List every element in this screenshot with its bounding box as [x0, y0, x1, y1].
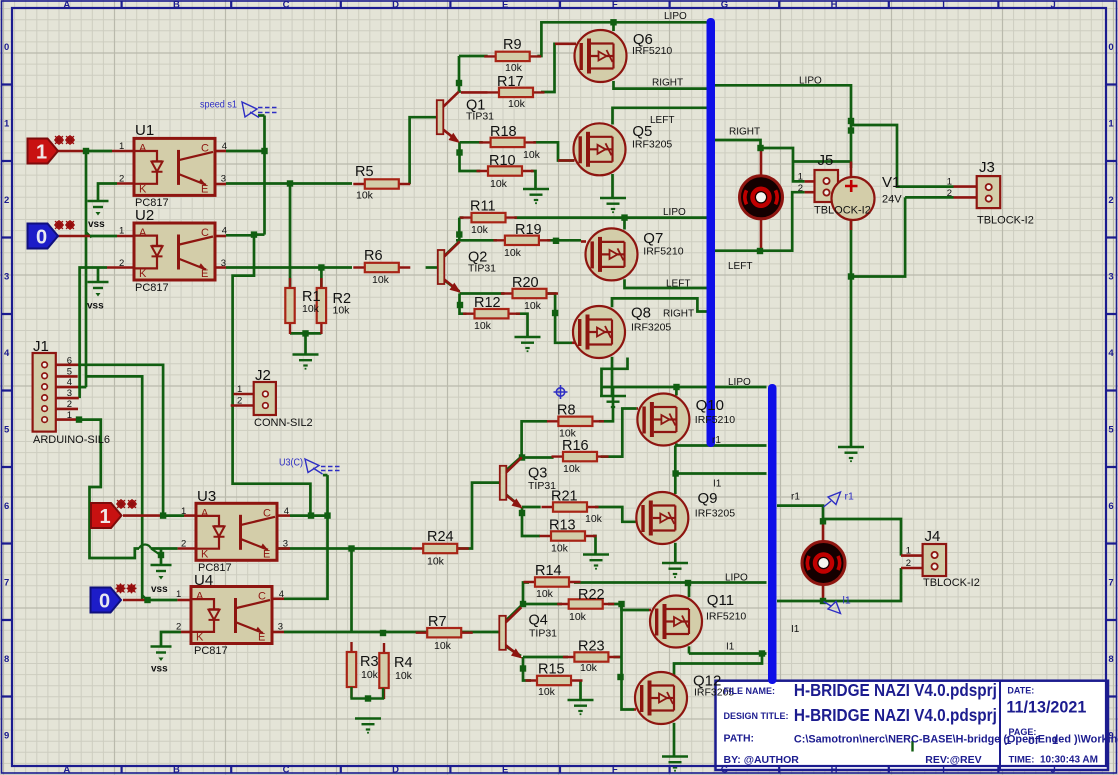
svg-text:3: 3	[4, 271, 9, 282]
svg-text:LIPO: LIPO	[664, 11, 687, 22]
svg-text:TBLOCK-I2: TBLOCK-I2	[977, 215, 1034, 227]
svg-text:2: 2	[176, 622, 181, 633]
svg-text:BY: @AUTHOR: BY: @AUTHOR	[724, 754, 800, 766]
svg-text:0: 0	[36, 227, 47, 249]
svg-text:10k: 10k	[524, 300, 542, 312]
svg-text:A: A	[201, 507, 209, 519]
svg-text:4: 4	[67, 377, 72, 388]
svg-text:E: E	[263, 548, 270, 560]
svg-text:1: 1	[36, 142, 47, 164]
svg-text:6: 6	[67, 355, 72, 366]
svg-text:r1: r1	[712, 435, 721, 446]
svg-text:H: H	[831, 765, 838, 775]
svg-text:1: 1	[947, 177, 952, 188]
svg-text:2: 2	[1108, 195, 1113, 206]
svg-text:Q10: Q10	[696, 397, 724, 414]
svg-text:LIPO: LIPO	[728, 377, 751, 388]
svg-text:PC817: PC817	[135, 282, 169, 294]
svg-text:10k: 10k	[474, 320, 492, 332]
svg-text:2: 2	[237, 396, 242, 407]
svg-text:I: I	[942, 0, 945, 11]
svg-text:24V: 24V	[882, 194, 902, 206]
svg-text:J2: J2	[255, 367, 271, 384]
svg-text:r1: r1	[845, 491, 854, 503]
svg-text:PATH:: PATH:	[724, 733, 755, 745]
svg-text:8: 8	[4, 654, 9, 665]
svg-text:6: 6	[4, 501, 9, 512]
svg-text:3: 3	[67, 388, 72, 399]
svg-text:ARDUINO-SIL6: ARDUINO-SIL6	[33, 434, 110, 446]
svg-text:IRF3205: IRF3205	[695, 508, 735, 520]
svg-text:TBLOCK-I2: TBLOCK-I2	[814, 205, 871, 217]
svg-text:LIPO: LIPO	[725, 573, 748, 584]
svg-text:E: E	[502, 0, 508, 11]
svg-text:LIPO: LIPO	[663, 207, 686, 218]
svg-text:R10: R10	[489, 153, 516, 169]
svg-text:1: 1	[67, 410, 72, 421]
svg-text:5: 5	[1108, 424, 1114, 435]
svg-text:10k: 10k	[508, 98, 526, 110]
svg-text:J1: J1	[33, 338, 49, 355]
svg-text:10k: 10k	[361, 669, 379, 681]
svg-text:10k: 10k	[471, 224, 489, 236]
svg-text:R13: R13	[549, 518, 576, 534]
svg-text:9: 9	[4, 730, 9, 741]
svg-text:10k: 10k	[563, 463, 581, 475]
svg-text:R21: R21	[551, 489, 578, 505]
svg-text:7: 7	[4, 577, 9, 588]
svg-text:A: A	[139, 227, 147, 239]
svg-text:Q9: Q9	[698, 490, 718, 507]
svg-text:IRF5210: IRF5210	[706, 611, 746, 623]
svg-text:10k: 10k	[585, 513, 603, 525]
svg-text:K: K	[196, 632, 204, 644]
svg-text:U3(C): U3(C)	[279, 457, 303, 469]
svg-text:LEFT: LEFT	[728, 261, 752, 272]
svg-text:4: 4	[222, 141, 227, 152]
svg-text:2: 2	[4, 195, 9, 206]
svg-text:H: H	[831, 0, 838, 11]
svg-text:U1: U1	[135, 122, 154, 139]
svg-text:D: D	[392, 0, 399, 11]
svg-text:1: 1	[119, 141, 124, 152]
svg-text:1: 1	[181, 506, 186, 517]
svg-text:RIGHT: RIGHT	[663, 309, 694, 320]
svg-text:R12: R12	[474, 295, 501, 311]
svg-text:E: E	[258, 632, 265, 644]
svg-text:3: 3	[221, 173, 226, 184]
svg-text:10k: 10k	[551, 543, 569, 555]
svg-text:4: 4	[1108, 348, 1114, 359]
svg-text:10k: 10k	[536, 588, 554, 600]
svg-text:J: J	[1051, 0, 1056, 11]
svg-text:PC817: PC817	[194, 645, 228, 657]
svg-text:10k: 10k	[569, 611, 587, 623]
svg-text:1: 1	[119, 226, 124, 237]
svg-text:vss: vss	[88, 219, 105, 230]
svg-text:R24: R24	[427, 529, 454, 545]
svg-text:U3: U3	[197, 488, 216, 505]
svg-text:2: 2	[119, 258, 124, 269]
svg-text:C: C	[283, 765, 290, 775]
svg-text:7: 7	[1108, 577, 1113, 588]
svg-text:IRF3205: IRF3205	[632, 139, 672, 151]
svg-text:2: 2	[181, 538, 186, 549]
svg-text:6: 6	[1108, 501, 1113, 512]
svg-text:J3: J3	[979, 159, 995, 176]
svg-text:J4: J4	[925, 528, 941, 545]
svg-text:I1: I1	[726, 642, 735, 653]
svg-text:2: 2	[906, 558, 911, 569]
svg-text:K: K	[201, 548, 209, 560]
svg-text:F: F	[612, 765, 618, 775]
svg-text:10k: 10k	[302, 303, 320, 315]
svg-text:1: 1	[906, 546, 911, 557]
svg-text:R5: R5	[355, 164, 374, 180]
svg-text:REV:@REV: REV:@REV	[925, 754, 981, 766]
svg-text:RIGHT: RIGHT	[652, 78, 683, 89]
svg-text:10k: 10k	[434, 640, 452, 652]
svg-text:R11: R11	[470, 199, 496, 215]
svg-text:vss: vss	[151, 664, 168, 675]
svg-text:TBLOCK-I2: TBLOCK-I2	[923, 577, 980, 589]
svg-text:FILE NAME:: FILE NAME:	[724, 686, 776, 696]
svg-text:U4: U4	[194, 572, 213, 589]
svg-text:R4: R4	[394, 655, 413, 671]
svg-text:A: A	[63, 0, 70, 11]
svg-text:0: 0	[99, 591, 110, 613]
svg-text:2: 2	[798, 183, 803, 194]
svg-text:R19: R19	[515, 222, 542, 238]
svg-text:R9: R9	[503, 37, 522, 53]
svg-text:R23: R23	[578, 639, 605, 655]
svg-text:10k: 10k	[372, 274, 390, 286]
svg-text:C: C	[201, 227, 209, 239]
svg-text:1: 1	[1108, 118, 1114, 129]
svg-text:4: 4	[284, 506, 289, 517]
svg-text:10k: 10k	[395, 670, 413, 682]
svg-text:R14: R14	[535, 563, 562, 579]
svg-text:3: 3	[221, 258, 226, 269]
svg-text:10k: 10k	[427, 556, 445, 568]
svg-text:0: 0	[4, 42, 9, 53]
svg-text:10k: 10k	[490, 178, 508, 190]
svg-text:2: 2	[67, 399, 72, 410]
svg-text:D: D	[392, 765, 399, 775]
svg-text:10k: 10k	[523, 149, 541, 161]
svg-text:R17: R17	[497, 74, 524, 90]
svg-text:8: 8	[1108, 654, 1113, 665]
svg-text:10k: 10k	[333, 305, 351, 317]
svg-text:H-BRIDGE NAZI V4.0.pdsprj: H-BRIDGE NAZI V4.0.pdsprj	[794, 680, 997, 700]
svg-text:I: I	[942, 765, 945, 775]
svg-text:V1: V1	[882, 174, 900, 191]
svg-text:10:30:43 AM: 10:30:43 AM	[1040, 755, 1098, 766]
svg-text:10k: 10k	[538, 686, 556, 698]
svg-text:1: 1	[798, 172, 803, 183]
svg-text:LEFT: LEFT	[666, 279, 690, 290]
svg-text:2: 2	[119, 173, 124, 184]
svg-text:Q8: Q8	[631, 305, 651, 322]
svg-text:2: 2	[947, 188, 952, 199]
svg-text:IRF5210: IRF5210	[632, 45, 672, 57]
svg-text:5: 5	[4, 424, 10, 435]
svg-text:A: A	[139, 142, 147, 154]
svg-text:R18: R18	[490, 124, 517, 140]
svg-text:CONN-SIL2: CONN-SIL2	[254, 417, 313, 429]
svg-text:J: J	[1051, 765, 1056, 775]
svg-text:10k: 10k	[504, 247, 522, 259]
svg-text:Q11: Q11	[707, 592, 734, 609]
svg-text:DESIGN TITLE:: DESIGN TITLE:	[724, 711, 789, 721]
svg-text:10k: 10k	[580, 662, 598, 674]
svg-text:R15: R15	[538, 662, 565, 678]
svg-text:IRF5210: IRF5210	[643, 246, 683, 258]
svg-text:TIP31: TIP31	[529, 628, 557, 640]
svg-text:1: 1	[4, 118, 10, 129]
svg-text:R8: R8	[557, 403, 576, 419]
svg-text:4: 4	[222, 226, 227, 237]
svg-text:R22: R22	[578, 587, 605, 603]
svg-text:C: C	[263, 507, 271, 519]
svg-text:TIP31: TIP31	[468, 263, 496, 275]
svg-text:H-BRIDGE NAZI V4.0.pdsprj: H-BRIDGE NAZI V4.0.pdsprj	[794, 705, 997, 725]
svg-text:TIP31: TIP31	[466, 111, 494, 123]
svg-text:R16: R16	[562, 438, 589, 454]
svg-text:vss: vss	[151, 584, 168, 595]
svg-text:1: 1	[100, 506, 111, 528]
svg-text:G: G	[721, 0, 728, 11]
svg-text:IRF3205: IRF3205	[631, 322, 671, 334]
svg-text:C: C	[201, 142, 209, 154]
svg-text:Q7: Q7	[643, 230, 663, 247]
svg-text:5: 5	[67, 366, 72, 377]
svg-text:LEFT: LEFT	[650, 115, 674, 126]
svg-text:l1: l1	[843, 595, 851, 607]
svg-text:LIPO: LIPO	[799, 76, 822, 87]
svg-text:DATE:: DATE:	[1007, 686, 1034, 696]
svg-text:U2: U2	[135, 207, 154, 224]
svg-text:11/13/2021: 11/13/2021	[1006, 699, 1086, 717]
svg-text:I1: I1	[713, 479, 722, 490]
svg-text:R7: R7	[428, 614, 447, 630]
svg-text:10k: 10k	[505, 62, 523, 74]
svg-text:A: A	[63, 765, 70, 775]
svg-text:R6: R6	[364, 248, 383, 264]
svg-text:3: 3	[278, 622, 283, 633]
svg-text:E: E	[502, 765, 508, 775]
svg-text:speed s1: speed s1	[200, 99, 237, 111]
svg-text:3: 3	[1108, 271, 1113, 282]
svg-text:J5: J5	[818, 152, 834, 169]
svg-text:3: 3	[283, 538, 288, 549]
svg-text:A: A	[196, 591, 204, 603]
svg-text:K: K	[139, 183, 147, 195]
svg-text:K: K	[139, 268, 147, 280]
svg-text:1: 1	[176, 589, 181, 600]
svg-text:B: B	[173, 765, 180, 775]
svg-text:F: F	[612, 0, 618, 11]
svg-text:4: 4	[4, 348, 10, 359]
svg-text:TIME:: TIME:	[1009, 755, 1035, 766]
svg-text:10k: 10k	[356, 190, 374, 202]
svg-text:C: C	[258, 591, 266, 603]
svg-text:vss: vss	[87, 301, 104, 312]
svg-text:C: C	[283, 0, 290, 11]
svg-text:r1: r1	[791, 492, 800, 503]
svg-text:R20: R20	[512, 275, 539, 291]
svg-text:E: E	[201, 183, 208, 195]
svg-text:RIGHT: RIGHT	[729, 127, 760, 138]
svg-text:1: 1	[237, 384, 242, 395]
svg-text:E: E	[201, 268, 208, 280]
svg-text:IRF5210: IRF5210	[695, 414, 735, 426]
svg-text:I1: I1	[791, 624, 800, 635]
svg-text:0: 0	[1108, 42, 1113, 53]
svg-text:G: G	[721, 765, 728, 775]
svg-text:4: 4	[279, 589, 284, 600]
svg-text:R3: R3	[360, 654, 379, 670]
svg-text:B: B	[173, 0, 180, 11]
svg-text:Q4: Q4	[529, 613, 548, 629]
svg-text:C:\Samotron\nerc\NERC-BASE\H-b: C:\Samotron\nerc\NERC-BASE\H-bridge (Ope…	[794, 734, 1118, 746]
